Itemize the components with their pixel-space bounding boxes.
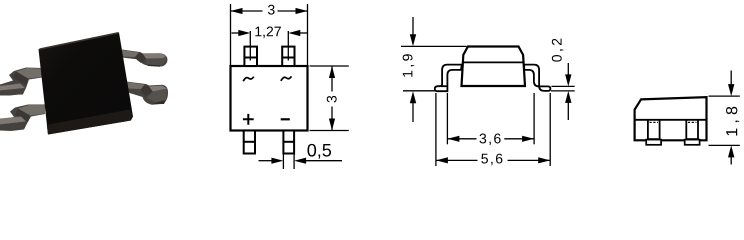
top view: ~ marking left [243,77,254,82]
dimension 3 (top width) line and arrows [231,10,263,12]
photo: molded body front face [39,33,134,135]
dimension 1,27 label [255,27,280,39]
side view: 1,9 top arrow [412,17,414,36]
dimension 0,2 label (rotated) [552,39,564,62]
dimension 1,27 arrows [232,32,241,34]
dimension 0,2 extension lines [552,85,575,87]
side view: mold parting line [463,61,524,63]
top view: pin 2 (top-right) [282,47,294,66]
dimension 3,6 line and arrows [448,138,477,140]
dimension 1,27 extension (pin centerlines) [249,31,251,61]
dimension 3,6 extension lines [446,93,448,144]
dimension 3 (top width) extension lines [230,4,232,65]
dimension 3,6 label [480,134,501,146]
photo: body bottom side face [47,110,133,135]
end view: body [635,97,707,140]
side view: 1,9 bottom arrow [412,102,414,123]
dimension 5,6 line and arrows [437,159,478,161]
top view: pin 1 (top-left) [244,47,257,66]
side view: seating plane line [403,90,436,92]
photo: lead lower-left [0,105,45,132]
dimension 1,8 extension lines [709,95,740,97]
top view: body outline [231,66,308,131]
photo: package body [0,33,168,135]
side view: left lead [435,65,462,92]
photo: lead upper-right [122,50,168,67]
top view: pin 4 (bottom-right) [283,131,294,154]
dimension 1,8 label (rotated) [726,107,739,136]
dimension 0,5 arrows [259,160,273,162]
dimension 0,5 label [307,144,331,159]
dimension 5,6 label [481,154,502,166]
end view: right lead [685,120,687,141]
dimension 0,2 arrows [567,63,569,76]
dimension 0,5 extension lines [282,154,284,169]
top view: pin 3 (bottom-left) [244,131,255,154]
dimension 5,6 extension lines [435,93,437,166]
dimension 3 (side) line and arrows [331,67,333,92]
top view: + marking [243,114,254,125]
dimension 3 (top width) label [268,5,275,15]
side view: right lead [524,65,550,91]
photo: body top bevel highlight [40,33,119,49]
side view: body [462,47,526,87]
side view: 1,9 top extension line [401,45,467,47]
dimension 3 (side height of top view) extension lines [310,65,349,67]
dimension 3 (side) label (rotated) [327,96,337,103]
photo: lead upper-left [0,68,42,96]
top view: - marking [281,118,290,120]
end view: left lead [647,120,649,141]
end view: leadframe line [635,119,707,121]
photo: lead lower-right [127,82,169,105]
dimension 1,8 arrows [730,71,732,86]
dimension 1,9 label (rotated) [403,54,415,77]
top view: ~ marking right [281,76,292,81]
